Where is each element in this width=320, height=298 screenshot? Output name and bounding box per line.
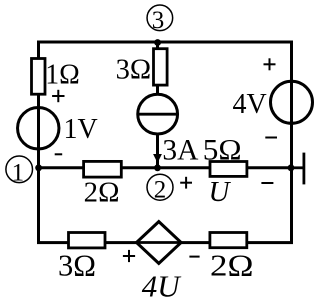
current arrow head — [153, 154, 162, 163]
voltage source 1V — [18, 108, 59, 149]
junction dot node2 — [154, 164, 161, 171]
plus sign of U — [180, 177, 192, 189]
minus sign of 1V — [55, 153, 63, 155]
current source 3A — [138, 94, 178, 134]
terminal bar — [302, 153, 305, 185]
resistor 5ohm — [210, 162, 247, 177]
node 3 circle — [147, 5, 173, 31]
resistor 2ohm middle — [84, 161, 122, 177]
svg-text:3Ω: 3Ω — [116, 55, 152, 86]
svg-text:2Ω: 2Ω — [210, 247, 254, 282]
svg-text:4V: 4V — [233, 89, 267, 120]
junction dot node1 — [35, 164, 42, 171]
plus sign of 4U — [123, 250, 135, 262]
node 1 circle — [6, 156, 33, 183]
resistor 3ohm top — [154, 49, 168, 85]
node 2 circle — [147, 174, 173, 200]
wire center branch — [156, 42, 159, 168]
minus sign of 4U — [189, 256, 199, 258]
svg-text:3A: 3A — [162, 135, 199, 167]
minus sign of 4V — [265, 137, 277, 139]
wire outer loop — [39, 42, 292, 243]
svg-text:3: 3 — [152, 7, 165, 34]
svg-text:2Ω: 2Ω — [84, 177, 120, 208]
minus sign of U — [261, 182, 273, 184]
wire middle horizontal — [39, 166, 292, 169]
svg-text:U: U — [209, 176, 232, 208]
svg-text:2: 2 — [154, 177, 167, 204]
plus sign of 4V — [264, 58, 276, 70]
dependent source 4U diamond — [137, 222, 182, 264]
svg-text:1Ω: 1Ω — [45, 59, 80, 90]
junction dot right — [288, 164, 295, 171]
junction dot top — [154, 39, 161, 46]
resistor R1 1ohm — [32, 59, 46, 95]
resistor 3ohm bottom — [69, 233, 106, 248]
svg-text:5Ω: 5Ω — [203, 134, 242, 166]
svg-text:1: 1 — [12, 159, 25, 186]
resistor 2ohm bottom — [210, 233, 247, 248]
svg-text:1V: 1V — [64, 114, 98, 145]
diamond bar — [137, 241, 182, 244]
svg-text:3Ω: 3Ω — [58, 248, 96, 283]
voltage source 4V — [271, 81, 313, 123]
plus sign of 1V — [52, 90, 64, 102]
current source bar — [138, 113, 178, 116]
wire terminal stub — [291, 166, 304, 169]
svg-text:4U: 4U — [142, 268, 183, 298]
